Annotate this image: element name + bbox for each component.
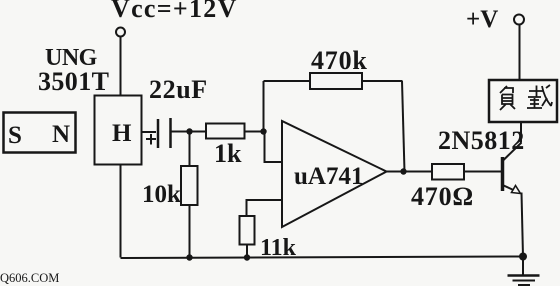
svg-text:1k: 1k: [214, 139, 242, 168]
output node junction: [400, 168, 406, 174]
svg-text:10k: 10k: [142, 181, 181, 208]
wire feedback left vertical: [263, 81, 265, 132]
resistor R2 10k: [181, 166, 198, 205]
wire op-amp output: [387, 171, 433, 173]
label load (fu zai) drawn glyphs: [500, 85, 552, 110]
wire capacitor to node A: [171, 131, 190, 133]
svg-text:Q606.COM: Q606.COM: [0, 271, 59, 285]
svg-text:uA741: uA741: [294, 163, 363, 190]
wire R1 to node B: [245, 131, 264, 133]
wire feedback right vertical: [402, 81, 405, 172]
svg-text:22uF: 22uF: [149, 75, 208, 104]
resistor R4 11k: [240, 216, 255, 245]
svg-text:S: S: [8, 122, 22, 149]
wire R2 to ground bus: [189, 205, 191, 258]
resistor R3 470k: [310, 73, 362, 89]
ground: [508, 276, 540, 286]
wire +V to load: [519, 25, 521, 81]
svg-text:470k: 470k: [311, 46, 368, 75]
wire feedback top right: [362, 80, 403, 82]
node A junction: [186, 128, 192, 134]
svg-text:+V: +V: [466, 6, 498, 33]
wire R5 to base: [464, 171, 501, 173]
terminal +V: [514, 15, 524, 25]
capacitor C1 22uF plates: [158, 118, 171, 148]
wire node A to R2 10k: [189, 132, 191, 167]
wire non-inverting input: [247, 200, 283, 216]
wire bus to ground: [522, 257, 524, 276]
junction R4 bus: [244, 254, 250, 260]
op-amp U1 uA741: [282, 121, 387, 227]
junction emitter bus: [519, 253, 527, 261]
junction R2 bus: [186, 254, 192, 260]
wire load to collector: [520, 122, 522, 143]
resistor R1 1k: [206, 124, 245, 139]
transistor Q1 2N5812: [503, 143, 522, 194]
svg-text:470Ω: 470Ω: [411, 182, 474, 211]
svg-text:3501T: 3501T: [38, 67, 109, 96]
wire emitter down: [522, 193, 524, 257]
wire feedback top left: [264, 80, 311, 82]
wire R4 to bus: [246, 245, 248, 258]
wire node A to R1: [190, 131, 207, 133]
node B junction: [260, 128, 266, 134]
svg-text:H: H: [112, 120, 132, 147]
magnet S N: [4, 113, 76, 153]
wire Vcc to Hall sensor: [120, 37, 122, 96]
svg-text:Vcc=+12V: Vcc=+12V: [111, 0, 238, 23]
Hall sensor H box: [95, 96, 142, 165]
ground bus wire: [121, 257, 524, 259]
wire Hall bottom to bus: [120, 164, 122, 258]
wire node B to inverting input: [265, 132, 283, 163]
wire Hall output to capacitor: [142, 131, 156, 133]
capacitor C1 plus mark: [146, 134, 156, 145]
terminal Vcc: [116, 28, 125, 37]
svg-text:N: N: [52, 121, 70, 148]
resistor R5 470ohm: [432, 164, 464, 180]
load box: [489, 80, 557, 122]
